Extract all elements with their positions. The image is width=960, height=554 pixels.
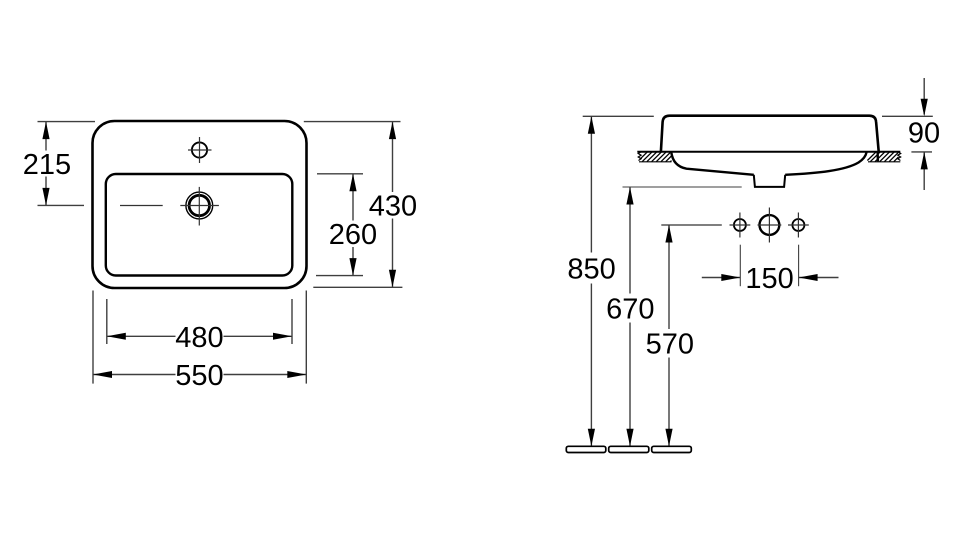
svg-text:90: 90 [908,118,940,150]
svg-text:150: 150 [745,263,793,295]
svg-text:550: 550 [175,360,223,392]
svg-text:570: 570 [646,329,694,361]
svg-text:480: 480 [175,322,223,354]
svg-text:215: 215 [23,149,71,181]
svg-text:430: 430 [369,191,417,223]
svg-text:670: 670 [606,293,654,325]
svg-text:850: 850 [567,253,615,285]
svg-text:260: 260 [329,219,377,251]
